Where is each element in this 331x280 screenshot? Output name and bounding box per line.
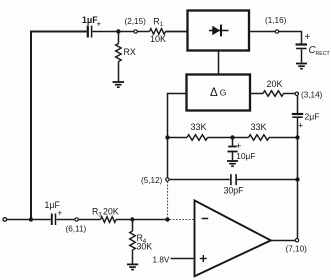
svg-text:20K: 20K — [103, 207, 119, 217]
wire C1 to node — [93, 31, 118, 33]
capacitor C3 2uF — [292, 112, 320, 131]
wire node to C2 — [31, 219, 51, 221]
terminal (2,15) open circle — [134, 30, 137, 33]
wire right rail feedback — [297, 138, 299, 239]
svg-text:33K: 33K — [191, 122, 207, 132]
wire CRECT to ground — [301, 50, 303, 63]
wire RX top lead — [118, 32, 120, 44]
wire node to terminal 2,15 — [118, 31, 133, 33]
svg-text:+: + — [305, 32, 311, 43]
wire box to CRECT corner — [250, 32, 302, 44]
gain block U2 delta G box — [187, 75, 251, 111]
wire terminal to R1 — [137, 31, 149, 33]
ground below 10uF — [227, 161, 238, 166]
op-amp plus sign — [200, 255, 207, 262]
svg-text:RX: RX — [124, 47, 136, 57]
capacitor C1 1uF top — [82, 15, 102, 38]
terminal (5,12) open circle — [166, 178, 169, 181]
ground below CRECT — [296, 64, 307, 69]
wire 1.8V to op-amp plus — [171, 258, 195, 260]
wire terminal to 2uF — [297, 96, 299, 113]
capacitor C4 10uF — [227, 138, 255, 161]
op-amp minus sign — [202, 218, 209, 220]
wire input to node — [7, 219, 30, 221]
resistor R6 33K — [187, 135, 208, 141]
wire R4 node to inverting node — [132, 219, 165, 221]
capacitor CRECT — [296, 32, 331, 57]
wire between 33K resistors — [208, 137, 249, 139]
terminal input open circle — [3, 218, 7, 222]
wire op-amp output — [271, 240, 295, 242]
terminal (1,16) open circle — [275, 30, 278, 33]
node C junction right rail — [295, 135, 299, 139]
node E junction feedback input — [29, 217, 33, 221]
svg-text:1.8V: 1.8V — [153, 255, 170, 264]
svg-text:+: + — [298, 121, 303, 131]
wire delta-G output to 20K — [251, 93, 264, 95]
wire top feedback loop — [31, 32, 87, 220]
wire R3 to R4 node — [116, 219, 130, 221]
svg-text:RECT: RECT — [316, 51, 331, 57]
svg-text:20K: 20K — [267, 79, 283, 89]
node B junction 10uF — [230, 135, 234, 139]
wire 20K to terminal — [284, 93, 295, 95]
resistor R3 — [101, 217, 117, 223]
terminal (3,14) open circle — [295, 92, 298, 95]
terminal (7,10) open circle — [295, 239, 298, 242]
capacitor C2 1uF bottom — [45, 200, 63, 225]
svg-text:(1,16): (1,16) — [265, 16, 287, 25]
resistor R4 — [130, 220, 136, 264]
wire C2 to terminal 6,11 — [57, 219, 75, 221]
wire 33K row left segment — [168, 137, 188, 139]
diode D1 inside box — [209, 25, 229, 37]
svg-text:(5,12): (5,12) — [141, 176, 163, 185]
svg-text:30K: 30K — [137, 242, 153, 252]
svg-text:10μF: 10μF — [236, 151, 255, 161]
wire RX bottom lead — [118, 62, 120, 82]
wire 30pF to right rail — [237, 179, 298, 181]
terminal (6,11) open circle — [75, 218, 78, 221]
svg-text:30pF: 30pF — [224, 186, 245, 196]
node D junction 30pF right rail — [295, 177, 299, 181]
wire 5,12 to 30pF — [169, 179, 230, 181]
resistor R5 20K — [263, 91, 284, 97]
svg-text:2μF: 2μF — [305, 112, 320, 122]
wire inverting node to op-amp dotted — [170, 219, 195, 221]
ground below RX — [113, 82, 125, 87]
svg-text:(7,10): (7,10) — [286, 245, 308, 254]
resistor RX — [116, 44, 122, 62]
resistor R7 33K — [249, 135, 270, 141]
svg-text:+: + — [97, 20, 102, 29]
svg-text:(3,14): (3,14) — [301, 91, 323, 100]
node G junction inverting input — [165, 217, 169, 221]
svg-text:33K: 33K — [251, 122, 267, 132]
wire 33K to right rail — [269, 137, 298, 139]
svg-text:G: G — [220, 88, 227, 98]
node A junction 33K row left — [165, 135, 169, 139]
node dot RX junction — [116, 29, 120, 33]
svg-text:+: + — [58, 209, 63, 218]
svg-text:R: R — [153, 16, 159, 26]
wire terminal to R3 — [78, 219, 100, 221]
svg-text:10K: 10K — [150, 34, 166, 44]
op-amp U3 triangle — [195, 200, 271, 276]
rectifier box U1 — [188, 11, 250, 51]
wire rectifier box to delta-G box — [218, 51, 220, 74]
node F junction R4 — [130, 217, 134, 221]
resistor R1 — [150, 29, 166, 35]
wire delta-G left input — [168, 94, 187, 179]
svg-text:(6,11): (6,11) — [66, 225, 87, 234]
wire R1 to rectifier box — [166, 31, 187, 33]
wire 2uF to 33K row — [297, 118, 299, 138]
ground below R4 — [127, 264, 138, 269]
svg-text:(2,15): (2,15) — [125, 17, 147, 26]
svg-text:Δ: Δ — [210, 87, 218, 99]
wire 5,12 down to inverting node dotted — [167, 181, 169, 217]
capacitor C5 30pF — [224, 174, 245, 195]
